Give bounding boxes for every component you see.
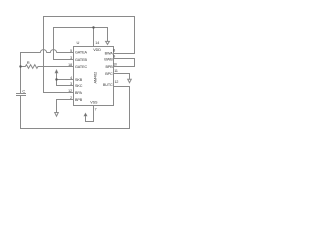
wire VSS pin7 hook	[86, 106, 94, 122]
svg-text:BWB: BWB	[104, 57, 113, 61]
svg-text:U: U	[77, 40, 80, 45]
capacitor C	[17, 93, 26, 95]
svg-text:VSS: VSS	[90, 101, 98, 105]
svg-text:BPA: BPA	[75, 91, 82, 95]
node resistor junction	[19, 65, 21, 67]
wire BPC with ground arrow	[114, 74, 130, 80]
svg-text:BPB: BPB	[105, 65, 113, 69]
wire BUTC bottom loop	[21, 87, 130, 129]
wire SKB	[57, 79, 74, 81]
svg-text:12: 12	[68, 89, 72, 93]
svg-text:5: 5	[70, 49, 72, 53]
IC U body	[74, 47, 114, 106]
wire outer loop BWA pin8 to BPA pin12	[44, 17, 135, 93]
svg-text:VDD: VDD	[93, 48, 101, 52]
net stub arrow to SKC	[57, 72, 74, 86]
svg-text:18: 18	[68, 63, 72, 67]
svg-text:BWA: BWA	[105, 52, 114, 56]
resistor R	[21, 65, 74, 69]
svg-text:12: 12	[115, 80, 119, 84]
svg-text:GATEC: GATEC	[75, 65, 87, 69]
svg-text:11: 11	[114, 69, 118, 73]
node SKB junction	[55, 78, 57, 80]
wire BPB with ground arrow	[57, 100, 74, 113]
svg-text:2: 2	[70, 96, 72, 100]
svg-text:BPC: BPC	[105, 72, 113, 76]
svg-text:AM462: AM462	[93, 72, 97, 84]
svg-text:GATEA: GATEA	[75, 50, 87, 54]
svg-text:BPB: BPB	[75, 98, 83, 102]
svg-text:10: 10	[113, 62, 117, 66]
svg-text:C: C	[22, 89, 25, 94]
wire GATEA with two hops	[21, 50, 74, 53]
svg-text:SKC: SKC	[75, 84, 83, 88]
svg-text:4: 4	[70, 76, 72, 80]
wire BWB BPB right U loop	[114, 59, 135, 67]
wire inner loop VDD net to GATEB	[54, 28, 108, 60]
svg-text:14: 14	[95, 41, 99, 45]
svg-text:3: 3	[70, 56, 72, 60]
svg-text:8: 8	[113, 49, 115, 53]
svg-text:9: 9	[113, 55, 115, 59]
wire VDD pin14 stub	[93, 28, 95, 47]
svg-text:3: 3	[70, 82, 72, 86]
svg-text:BUTC: BUTC	[103, 83, 113, 87]
svg-text:SKB: SKB	[75, 78, 83, 82]
VDD arrow down	[107, 28, 109, 42]
VSS arrow up	[84, 113, 87, 116]
wire left rail vertical	[20, 53, 22, 94]
node VDD junction	[92, 26, 94, 28]
svg-text:R: R	[27, 60, 30, 65]
svg-text:7: 7	[95, 107, 97, 111]
svg-text:GATEB: GATEB	[75, 58, 87, 62]
